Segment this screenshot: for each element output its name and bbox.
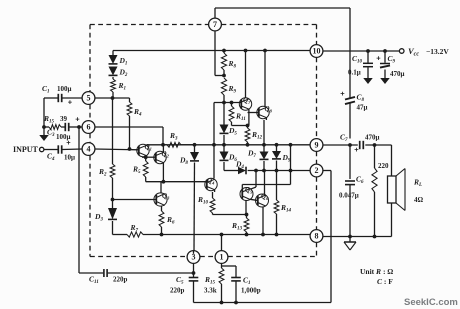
terminal Vcc — [399, 49, 404, 54]
svg-text:470μ: 470μ — [365, 134, 380, 142]
junction R12 bottom — [246, 143, 250, 147]
label C8 — [357, 93, 365, 104]
junction pin1 on rail — [220, 233, 224, 237]
svg-text:+: + — [68, 98, 73, 107]
label R5 — [132, 165, 141, 176]
junction Q2 emitter Q3 collector — [162, 180, 166, 184]
polarity + of C7 — [354, 145, 359, 154]
label R15b — [204, 275, 216, 286]
wire top rail from pin 7 over to bootstrap column — [215, 8, 350, 51]
wire Q5 emitter to Q6 base — [250, 199, 258, 200]
wire pin 6 to first stage — [95, 127, 163, 145]
svg-text:6: 6 — [87, 123, 91, 132]
polarity + of C4 — [66, 138, 71, 147]
svg-text:220p: 220p — [113, 276, 128, 284]
wire Q5 collector — [250, 171, 256, 190]
label Vcc -13.2V — [408, 46, 449, 58]
wire Q1 emitter to Q2 base — [142, 156, 156, 158]
svg-text:4: 4 — [87, 145, 91, 154]
capacitor C11 — [104, 269, 107, 277]
value 220 — [378, 162, 389, 170]
value 100u of C3 — [56, 133, 71, 141]
svg-text:INPUT: INPUT — [13, 145, 39, 154]
wire feedback drop from C3 — [78, 127, 80, 273]
wire pin 5 to R4 — [95, 97, 130, 99]
junction R9 bottom / D5 top — [222, 101, 226, 105]
wire from pin 7 up to top rail — [214, 8, 216, 51]
junction R2 bottom / Q3 base wire — [111, 198, 115, 202]
pin 1 — [215, 251, 228, 264]
label C4 — [47, 152, 55, 163]
resistor R14 — [274, 171, 279, 235]
svg-text:C : F: C : F — [377, 277, 393, 286]
svg-text:1: 1 — [220, 253, 224, 262]
note units — [360, 267, 393, 286]
wire Q8 collector — [264, 51, 266, 108]
capacitor C3 — [65, 123, 82, 131]
resistor R15b — [219, 263, 224, 302]
svg-text:470μ: 470μ — [390, 70, 405, 78]
wire pin 4 to Q1 base — [95, 148, 139, 151]
transistor Q5 — [240, 188, 253, 201]
diode D2 — [109, 67, 118, 76]
wire output drop to Q5 base — [242, 145, 290, 190]
junction Q5 emitter / R13 top — [245, 213, 249, 217]
wire C9 branch — [384, 51, 386, 78]
label R13 — [231, 221, 243, 232]
junction bias column to R15 — [42, 125, 46, 129]
value 100u of C1 — [57, 85, 72, 93]
label C11 — [89, 275, 99, 286]
label R11 — [235, 112, 246, 123]
label D1 — [119, 56, 128, 67]
label D4 — [235, 160, 244, 171]
label Q3 — [162, 192, 170, 201]
resistor R7 (in rail) — [127, 232, 143, 237]
transistor Q2 — [154, 151, 166, 163]
wire Q7 emitter — [248, 109, 250, 126]
label D9 — [282, 153, 291, 164]
pin 5 — [82, 92, 95, 105]
label R1 — [118, 81, 127, 92]
pin 6 — [82, 121, 95, 134]
wire C11 leads — [79, 272, 194, 274]
capacitor C4 — [58, 145, 61, 153]
wire Q7 collector — [245, 51, 247, 98]
svg-text:+: + — [354, 145, 359, 154]
junction R5 top — [144, 155, 148, 159]
label C1 — [42, 84, 50, 95]
label R9 — [228, 84, 237, 95]
resistor R6 — [159, 205, 164, 235]
wire pin 1 up to rail — [221, 235, 223, 251]
value 10u of C4 — [64, 154, 75, 162]
resistor R2 — [110, 98, 115, 200]
pin 4 — [82, 143, 95, 156]
svg-text:220: 220 — [378, 162, 389, 170]
svg-text:0.047μ: 0.047μ — [339, 192, 359, 200]
junction Q8 collector tap — [263, 49, 267, 53]
label C6 — [356, 175, 364, 186]
label R14 — [280, 203, 292, 214]
junction C6 bottom — [348, 235, 352, 239]
resistor 220 — [372, 145, 377, 237]
label D8 — [179, 156, 188, 167]
ground at input bias — [39, 127, 49, 141]
resistor R12 — [245, 126, 250, 145]
junction C1b bottom — [234, 301, 238, 305]
label Q2 — [162, 150, 170, 159]
resistor R5 — [143, 157, 148, 182]
label R7 — [130, 223, 139, 234]
junction Q8 emitter / D7 — [262, 143, 266, 147]
svg-text:−13.2V: −13.2V — [426, 47, 449, 56]
wire pin 3 down — [193, 251, 195, 273]
label R10 — [197, 195, 209, 206]
value 3.3k — [204, 287, 217, 295]
diode D3 — [108, 200, 117, 235]
wire feedback bottom run — [194, 171, 332, 303]
junction R8/R9 — [222, 74, 226, 78]
wire corner to D1 — [112, 51, 114, 56]
resistor R10 — [210, 198, 215, 215]
resistor R3 (horizontal) — [163, 142, 195, 147]
capacitor C7 — [360, 141, 364, 149]
junction D9 bottom — [275, 169, 279, 173]
wire Q8 emitter to bus — [264, 118, 266, 145]
wire Q2 collector to bus — [162, 145, 164, 153]
value 4ohm — [414, 196, 424, 204]
ground under C10 — [363, 78, 373, 84]
svg-text:4Ω: 4Ω — [414, 196, 424, 204]
junction R220 bottom — [373, 235, 377, 239]
transistor Q8 — [257, 106, 269, 118]
resistor R8 — [221, 51, 226, 76]
junction VAS column — [212, 143, 216, 147]
diode D5 — [220, 103, 229, 145]
label D3 — [94, 212, 103, 223]
wire Vcc rail from pin 10 to supply terminal — [323, 50, 400, 52]
capacitor C1 — [58, 94, 61, 102]
wire Q6 collector — [264, 171, 266, 196]
diode D8 with wire to pin 3 — [190, 145, 199, 251]
wire Q1 collector to bus — [145, 144, 147, 147]
label Q5 — [245, 186, 253, 195]
junction R220 top — [373, 143, 377, 147]
value 220p of C5 — [170, 287, 185, 295]
wire pin 2 to bias rail — [291, 170, 311, 172]
value 470u — [390, 70, 405, 78]
value 220p of C11 — [113, 276, 128, 284]
label D7 — [247, 149, 256, 160]
junction D8 top — [193, 143, 197, 147]
transistor Q3 — [154, 193, 167, 206]
wire VAS column — [213, 103, 215, 179]
diode D1 — [109, 55, 118, 64]
wire Q5 emitter to R13 — [245, 201, 247, 215]
label R3 — [169, 131, 178, 142]
junction Q7 emitter / R12 top — [246, 124, 250, 128]
wire R10 bottom to R13 — [213, 214, 248, 216]
svg-text:+: + — [376, 54, 381, 63]
resistor R11 — [229, 103, 247, 126]
pin 8 — [310, 230, 323, 243]
value 39 — [60, 115, 68, 123]
label R2 — [98, 167, 107, 178]
svg-text:3.3k: 3.3k — [204, 287, 217, 295]
label D2 — [119, 68, 128, 79]
value 470u of C7 — [365, 134, 380, 142]
svg-text:3: 3 — [192, 253, 196, 262]
resistor R13 — [244, 215, 249, 235]
capacitor C5 — [189, 273, 199, 303]
transistor Q6 — [256, 194, 269, 207]
diode D9 — [272, 145, 281, 171]
junction node6/Q1 collector — [161, 143, 165, 147]
polarity + of C3 — [75, 115, 80, 124]
label C10 — [352, 54, 363, 65]
svg-text:9: 9 — [315, 141, 319, 150]
wire Q4 emitter to R10 — [213, 190, 215, 198]
label R4 — [133, 107, 142, 118]
junction R6 bottom — [160, 233, 164, 237]
watermark SeekIC.com — [404, 297, 458, 308]
junction R4 bottom on pin4 wire — [128, 147, 132, 151]
value 47u — [357, 104, 368, 112]
svg-text:2: 2 — [315, 166, 319, 175]
label C3 — [47, 128, 55, 139]
label R8 — [228, 59, 237, 70]
junction R14 bottom — [275, 233, 279, 237]
capacitor C4 lead wires — [44, 148, 82, 151]
wire Q6 emitter — [262, 207, 264, 235]
svg-text:39: 39 — [60, 115, 68, 123]
value 1000p — [241, 287, 261, 295]
value 0.047u — [339, 192, 359, 200]
IC package boundary (dashed), bottom edge — [90, 256, 317, 258]
speaker RL — [388, 169, 406, 211]
wire main bus to pin 9 — [147, 144, 310, 146]
svg-text:5: 5 — [87, 94, 91, 103]
pin 10 — [310, 45, 323, 58]
junction D7 bottom — [262, 169, 266, 173]
label C9 — [388, 54, 396, 65]
svg-text:Unit R : Ω: Unit R : Ω — [360, 267, 393, 276]
wire internal ground rail — [113, 234, 311, 236]
label R12 — [251, 130, 263, 141]
label C1b — [243, 276, 251, 287]
polarity + of C9 — [376, 54, 381, 63]
pin 3 — [187, 251, 200, 264]
junction R15b bottom — [220, 301, 224, 305]
wire Q3 base — [113, 199, 157, 201]
label D5 — [228, 126, 237, 137]
wire output ground rail — [323, 236, 392, 238]
junction C6 top — [348, 143, 352, 147]
terminal INPUT — [40, 147, 44, 151]
wire left bias column — [43, 98, 45, 127]
junction D5-D6 — [222, 143, 226, 147]
label Q6 — [261, 193, 269, 202]
junction Q7 collector tap — [244, 49, 248, 53]
label Q7 — [243, 97, 251, 106]
label Q1 — [145, 143, 152, 152]
svg-text:220p: 220p — [170, 287, 185, 295]
junction R13 bottom — [245, 233, 249, 237]
label RL — [413, 178, 422, 189]
resistor R4 — [127, 98, 132, 149]
pin 7 — [209, 18, 222, 31]
diode D4 — [238, 167, 246, 175]
label Q8 — [265, 105, 273, 114]
resistor R15 input — [44, 125, 65, 130]
capacitor C10 — [363, 63, 373, 66]
pin 2 — [310, 164, 323, 177]
label R6 — [166, 215, 175, 226]
wire Q3 collector — [160, 182, 162, 193]
wire Q8 base — [248, 112, 259, 114]
transistor Q4 — [205, 178, 217, 190]
label C7 — [340, 133, 348, 144]
pin 9 — [310, 139, 323, 152]
wire C7 to speaker — [365, 145, 391, 176]
resistor R9 — [221, 78, 226, 103]
label R15 — [43, 114, 55, 125]
IC package boundary (dashed), top edge — [90, 24, 317, 26]
junction output drop on bias rail — [289, 169, 293, 173]
wire internal supply rail y=50.5 — [113, 50, 310, 52]
junction R11 top — [230, 101, 234, 105]
junction C3 to feedback drop — [77, 125, 81, 129]
wire R5 bottom / Q3 collector / Q4 base — [146, 181, 207, 183]
svg-text:SeekIC.com: SeekIC.com — [404, 297, 458, 308]
diode D7 — [260, 145, 269, 171]
transistor Q7 — [239, 98, 251, 110]
junction pin3/C11/C5 — [192, 271, 196, 275]
junction Q6 emitter on rail — [261, 233, 265, 237]
transistor Q1 — [137, 144, 149, 156]
capacitor C8 (electrolytic, bootstrap) — [345, 51, 355, 139]
svg-text:+: + — [340, 89, 345, 98]
ground at output rail — [344, 237, 356, 251]
capacitor C9 (electrolytic) — [380, 64, 390, 68]
wire C10 branch — [367, 51, 369, 78]
svg-text:7: 7 — [213, 20, 217, 29]
svg-text:47μ: 47μ — [357, 104, 368, 112]
capacitor C1b branch — [222, 266, 241, 303]
polarity + of C1 — [68, 98, 73, 107]
IC package boundary (dashed), right edge — [316, 25, 318, 257]
svg-text:8: 8 — [315, 232, 319, 241]
svg-text:1,000p: 1,000p — [241, 287, 261, 295]
polarity + of C8 — [340, 89, 345, 98]
junction D9 top — [275, 143, 279, 147]
label C5 — [176, 275, 184, 286]
junction R1 bottom on pin5 wire — [111, 96, 115, 100]
svg-text:10μ: 10μ — [64, 154, 75, 162]
label INPUT — [13, 145, 39, 154]
svg-text:+: + — [75, 115, 80, 124]
wire pin 9 to C7 — [323, 144, 358, 146]
junction Q5 collector on bias rail — [254, 169, 258, 173]
junction R8 top — [222, 49, 226, 53]
capacitor C6 — [345, 145, 355, 237]
IC package boundary (dashed), left edge — [89, 25, 91, 257]
junction output right drop — [289, 143, 293, 147]
ground under C9 — [380, 78, 390, 84]
value 0.1u — [348, 69, 361, 77]
svg-text:+: + — [66, 138, 71, 147]
diode D6 — [220, 145, 229, 171]
capacitor C1 lead wires — [44, 97, 82, 99]
resistor R1 — [111, 77, 116, 98]
label Q4 — [207, 177, 215, 186]
wire Q2 emitter down — [162, 163, 164, 182]
svg-text:10: 10 — [313, 47, 321, 56]
wire speaker to ground rail — [391, 203, 393, 237]
wire pin7 column to R8/R9 junction — [215, 51, 224, 76]
svg-text:100μ: 100μ — [57, 85, 72, 93]
label D6 — [228, 153, 237, 164]
wire bias rail with D4 — [224, 170, 291, 172]
wire driver base bus — [214, 102, 241, 104]
junction C9 tap — [383, 49, 387, 53]
junction C10 tap — [366, 49, 370, 53]
